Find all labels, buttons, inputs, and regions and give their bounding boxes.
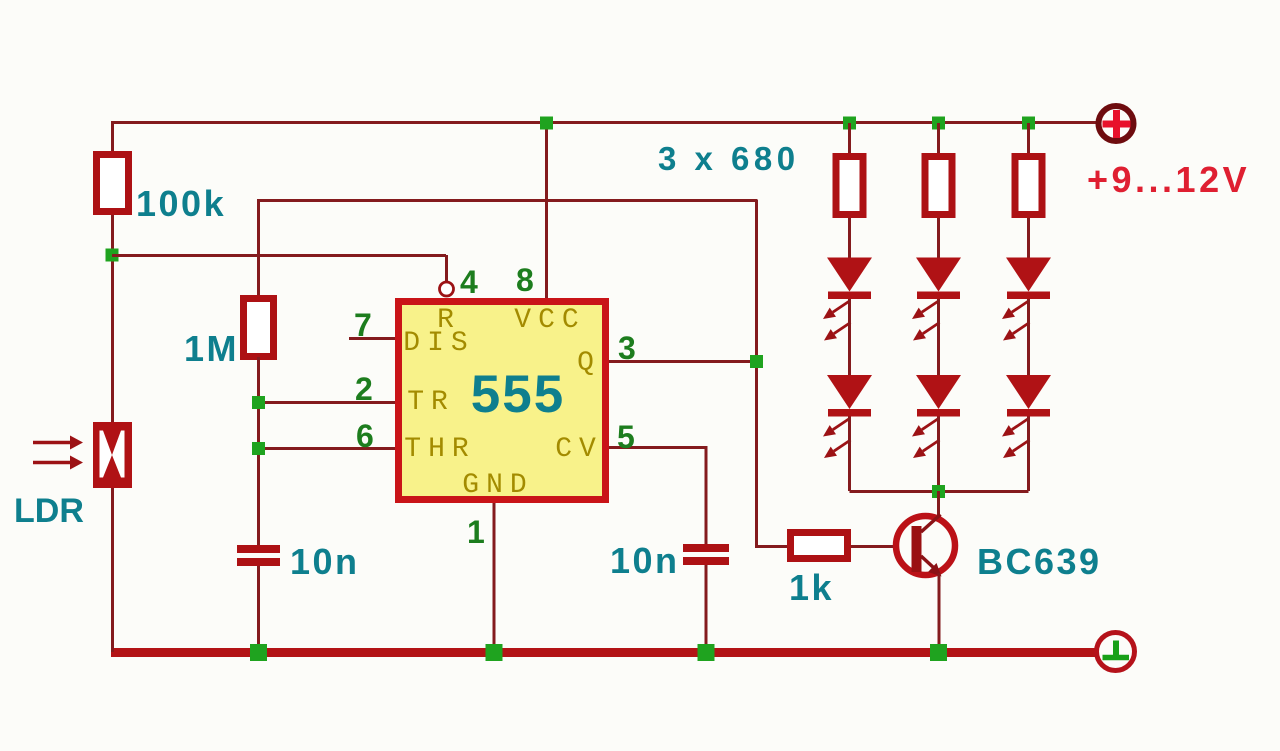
wire LED bottom join rail xyxy=(850,490,1029,493)
wire LDR bottom to ground rail xyxy=(111,488,114,652)
wire LED D3 to LED D4 xyxy=(937,299,940,376)
svg-text:CV: CV xyxy=(555,434,603,465)
svg-text:100k: 100k xyxy=(136,183,226,224)
wire R1 bottom to LDR top xyxy=(111,215,114,423)
svg-text:THR: THR xyxy=(404,434,475,465)
svg-text:Q: Q xyxy=(577,348,601,379)
wire pin 5 CV xyxy=(609,446,706,449)
wire rail to resistor R3 xyxy=(937,123,940,154)
svg-text:LDR: LDR xyxy=(14,492,84,530)
ground terminal tee symbol xyxy=(1103,641,1130,658)
svg-text:5: 5 xyxy=(617,419,635,455)
svg-text:10n: 10n xyxy=(290,541,360,582)
svg-text:8: 8 xyxy=(516,262,534,298)
wire R6 to transistor base xyxy=(851,545,900,548)
junction top rail col R2 xyxy=(843,117,856,130)
wire LED D2 to bottom join xyxy=(848,417,851,492)
resistor R6 1k xyxy=(791,533,848,559)
power supply plus sign xyxy=(1103,110,1131,138)
svg-text:1k: 1k xyxy=(789,567,834,608)
LED D2 xyxy=(823,375,872,458)
LED D6 xyxy=(1002,375,1051,458)
LDR light arrow 2 xyxy=(33,456,83,470)
wire R5 top up xyxy=(257,202,260,295)
wire pin 7 stub xyxy=(349,337,395,340)
IC U1 555 body xyxy=(399,302,606,500)
junction ground rail C1 xyxy=(250,644,267,661)
svg-text:DIS: DIS xyxy=(403,328,474,359)
junction ground rail emitter xyxy=(930,644,947,661)
pin 4 inversion bubble xyxy=(440,282,454,296)
junction top rail col R4 xyxy=(1022,117,1035,130)
svg-text:TR: TR xyxy=(407,387,455,418)
svg-text:555: 555 xyxy=(471,365,565,424)
wire pin 5 down to C2 xyxy=(705,446,708,544)
resistor R1 100k xyxy=(97,155,129,212)
wire resistor R2 to LED D1 xyxy=(848,218,851,259)
wire Q column to 1k resistor xyxy=(755,545,790,548)
svg-text:BC639: BC639 xyxy=(977,541,1102,582)
transistor Q1 BC639 xyxy=(896,515,955,577)
wire resistor R4 to LED D5 xyxy=(1027,218,1030,259)
svg-text:4: 4 xyxy=(460,264,478,300)
LED D5 xyxy=(1002,258,1051,341)
LDR light arrow 1 xyxy=(33,436,83,450)
wire LED D4 to bottom join xyxy=(937,417,940,492)
wire resistor R3 to LED D3 xyxy=(937,218,940,259)
svg-text:1M: 1M xyxy=(184,328,239,369)
svg-text:3: 3 xyxy=(618,330,636,366)
capacitor C1 10n plate 1 xyxy=(237,545,280,553)
wire rail down to resistor R1 xyxy=(111,121,114,152)
wire down to pin 4 bubble xyxy=(445,255,448,282)
wire rail to resistor R2 xyxy=(848,123,851,154)
wire LED join to transistor collector xyxy=(937,491,940,519)
junction node Q feedback xyxy=(750,355,763,368)
resistor R2 680 xyxy=(836,157,863,215)
wire Q column vertical xyxy=(755,200,758,548)
svg-text:+9...12V: +9...12V xyxy=(1087,159,1250,200)
wire feedback horizontal to Q column xyxy=(257,199,758,202)
svg-text:VCC: VCC xyxy=(514,305,585,336)
wire transistor emitter to ground rail xyxy=(938,573,941,652)
junction node R1/LDR divider xyxy=(106,249,119,262)
LED D3 xyxy=(912,258,961,341)
capacitor C2 10n plate 1 xyxy=(683,544,729,552)
svg-text:3 x 680: 3 x 680 xyxy=(658,140,800,177)
ground terminal circle xyxy=(1097,633,1135,671)
capacitor C2 10n plate 2 xyxy=(683,557,729,565)
wire divider node to pin 4 (horizontal) xyxy=(112,254,446,257)
wire top supply rail xyxy=(111,121,1098,124)
svg-text:7: 7 xyxy=(354,307,372,343)
wire pin 1 GND xyxy=(493,503,496,652)
wire rail to resistor R4 xyxy=(1027,123,1030,154)
LED D1 xyxy=(823,258,872,341)
LED D4 xyxy=(912,375,961,458)
svg-text:1: 1 xyxy=(467,514,485,550)
ground rail thick xyxy=(111,648,1098,657)
junction top rail at pin 8 xyxy=(540,117,553,130)
wire pin 2 xyxy=(259,401,395,404)
svg-text:6: 6 xyxy=(356,418,374,454)
junction top rail col R3 xyxy=(932,117,945,130)
wire LED D5 to LED D6 xyxy=(1027,299,1030,376)
wire pin 3 Q output xyxy=(609,360,756,363)
LDR R7 inner symbol xyxy=(100,431,125,478)
resistor R4 680 xyxy=(1015,157,1042,215)
junction node pin 2 xyxy=(252,396,265,409)
wire LED D6 to bottom join xyxy=(1027,417,1030,492)
resistor R3 680 xyxy=(925,157,952,215)
wire C1 to ground rail xyxy=(257,566,260,652)
power supply terminal xyxy=(1099,106,1134,141)
wire C2 to ground rail xyxy=(705,565,708,652)
wire LED D1 to LED D2 xyxy=(848,299,851,376)
svg-text:2: 2 xyxy=(355,371,373,407)
wire pin 6 xyxy=(259,447,395,450)
junction ground rail pin 1 xyxy=(486,644,503,661)
wire R5 bottom / TR THR column xyxy=(257,357,260,546)
resistor R5 1M xyxy=(244,299,274,357)
wire pin 8 VCC xyxy=(545,123,548,298)
svg-text:10n: 10n xyxy=(610,540,680,581)
junction ground rail C2 xyxy=(698,644,715,661)
junction node pin 6 xyxy=(252,442,265,455)
svg-text:GND: GND xyxy=(462,470,533,501)
capacitor C1 10n plate 2 xyxy=(237,558,280,566)
LDR R7 body xyxy=(93,422,132,488)
junction LED join node xyxy=(932,485,945,498)
